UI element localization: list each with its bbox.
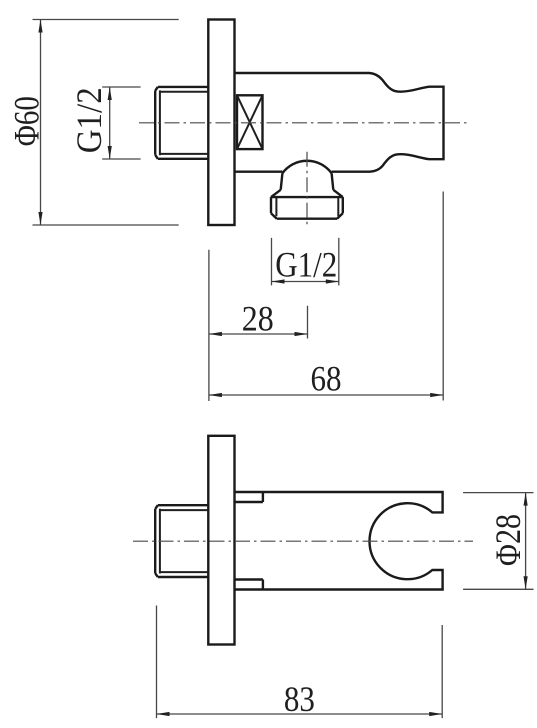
svg-text:83: 83 <box>284 679 315 719</box>
svg-text:G1/2: G1/2 <box>275 245 337 285</box>
svg-text:Φ60: Φ60 <box>7 96 47 146</box>
svg-text:Φ28: Φ28 <box>488 514 528 566</box>
svg-text:G1/2: G1/2 <box>69 87 109 153</box>
svg-text:68: 68 <box>311 359 342 399</box>
svg-text:28: 28 <box>242 298 274 338</box>
